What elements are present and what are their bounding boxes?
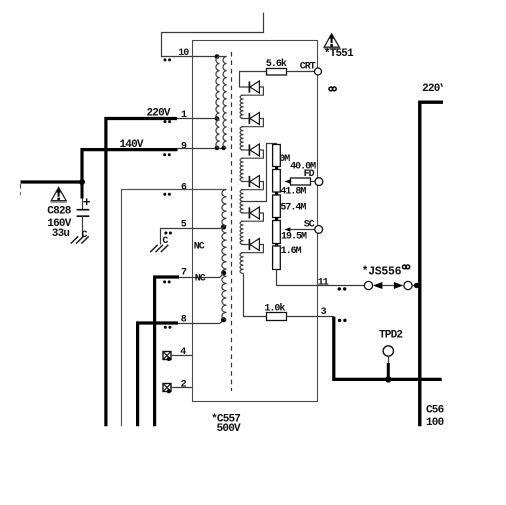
node chain link dot — [275, 217, 278, 220]
wire D6 anode loop — [241, 245, 264, 253]
svg-text:1.6M: 1.6M — [281, 246, 302, 257]
svg-text:C56: C56 — [426, 405, 444, 417]
wire pin 6 (thin bus down) — [122, 190, 227, 427]
wire chain link — [276, 244, 278, 247]
wire top feed to pin 10 — [162, 13, 264, 57]
wire left input to 140V node (thick) — [21, 180, 83, 183]
infinity mark near CRT — [329, 87, 333, 91]
wire D1 anode loop — [241, 87, 264, 95]
node pin1 junction dot — [215, 116, 220, 121]
wire 5.6k to CRT terminal — [287, 71, 315, 73]
pin 11 ** mark — [338, 287, 341, 290]
transformer T551 outline box — [193, 41, 318, 402]
diode D5 of HV stack — [248, 207, 250, 218]
wire D2 anode loop — [241, 119, 264, 127]
HV winding section 6 — [240, 253, 244, 274]
wire pin 7 thin part — [179, 274, 224, 278]
capacitor C828 plus sign — [83, 201, 90, 203]
diode D4 of HV stack — [248, 176, 250, 187]
resistor 1.0k — [267, 313, 287, 321]
HV winding section 1 — [240, 95, 243, 118]
svg-text:41.8M: 41.8M — [280, 186, 306, 197]
pin 2 crossed-box terminal — [163, 384, 171, 392]
node pin7 junction dot — [221, 270, 226, 275]
SC terminal circle — [315, 226, 323, 234]
wire winding to D2 — [241, 118, 249, 120]
svg-text:0M: 0M — [279, 154, 290, 165]
wire pin 5 — [161, 227, 224, 244]
HV winding section 2 — [240, 127, 243, 150]
jumper JS556 left circle — [364, 281, 372, 289]
jumper JS556 double arrow — [380, 285, 396, 287]
svg-text:500V: 500V — [217, 423, 241, 435]
wire winding to D6 — [241, 244, 249, 246]
hot-ground warning triangle near C828 — [51, 187, 66, 200]
svg-text:CRT: CRT — [300, 61, 316, 72]
wire 220V right bus (thick) — [420, 102, 443, 426]
HV winding section 5 — [240, 221, 243, 244]
infinity mark near JS556 — [403, 265, 407, 269]
svg-text:11: 11 — [318, 277, 329, 288]
wire pin 1 — [177, 118, 217, 120]
wire chain bottom to pin 11 — [277, 270, 365, 286]
HV winding section 4 — [240, 190, 243, 213]
pin 7 ** mark — [163, 280, 166, 283]
wire pin 7 (thick bus down) — [155, 277, 179, 426]
wire pin 4 — [171, 355, 193, 357]
warning triangle T551 — [324, 34, 339, 47]
wire winding to D5 — [241, 212, 249, 214]
pin 8 ** mark — [164, 326, 167, 329]
svg-text:*T551: *T551 — [324, 48, 354, 60]
diode D3 of HV stack — [248, 144, 250, 155]
wire pin 8 thin part — [178, 321, 224, 324]
wire 220V feed (thick) — [106, 119, 177, 427]
node TPD2 junction dot — [385, 376, 391, 382]
diode D1 of HV stack — [248, 81, 250, 92]
FD tap arrow — [285, 179, 291, 183]
bleeder resistor 19.5M — [273, 221, 281, 244]
node junction dot on 220V bus — [414, 283, 419, 288]
svg-text:10: 10 — [178, 48, 189, 59]
node chain link dot — [275, 192, 278, 195]
svg-text:33u: 33u — [52, 228, 70, 240]
ground (chassis) at pin 5 — [150, 245, 158, 252]
capacitor C828 plates — [77, 209, 90, 211]
pin 1 ** mark — [164, 120, 167, 123]
node pin10 junction dot — [215, 54, 220, 59]
wire FD resistor to terminal — [311, 181, 316, 183]
TPD2 test point circle — [383, 346, 393, 356]
wire chain link — [276, 218, 278, 221]
continuation tick at left wire end — [20, 184, 22, 189]
pin 3 ** mark — [338, 319, 341, 322]
primary winding L-B (parallel) — [223, 57, 227, 149]
node pin8 junction dot — [221, 317, 226, 322]
wire pin 2 — [171, 387, 193, 389]
jumper JS556 right circle — [404, 281, 412, 289]
wire chain link — [276, 192, 278, 195]
pin 4 crossed-box terminal — [163, 352, 171, 360]
bleeder resistor (0M) — [273, 145, 281, 167]
wire winding to D3 — [241, 149, 249, 151]
primary winding L-A (pins 10-1-9) — [216, 57, 220, 149]
bleeder resistor 57.4M — [273, 195, 281, 218]
wire chain top node — [244, 144, 277, 202]
SC tap arrow and wire — [285, 227, 291, 231]
ground (chassis) below C828 — [71, 236, 79, 243]
wire D4 anode loop — [241, 182, 264, 190]
wire TPD2 stem — [388, 356, 390, 364]
svg-text:SC: SC — [304, 219, 315, 230]
wire C828 bottom lead — [82, 216, 84, 236]
HV winding section 3 — [240, 158, 243, 181]
svg-text:*JS556: *JS556 — [362, 265, 402, 278]
wire D5 anode loop — [241, 213, 264, 221]
pin 10 ** mark — [164, 58, 167, 61]
node chain link dot — [275, 243, 278, 246]
FD terminal circle — [315, 178, 323, 186]
wire D3 anode loop — [241, 150, 264, 158]
pin 6 ** mark — [163, 193, 166, 196]
node pin9 junction dots — [215, 146, 220, 151]
CRT terminal circle — [315, 68, 322, 75]
wire winding to D4 — [241, 181, 249, 183]
resistor 40.0M (FD) — [291, 178, 311, 185]
svg-text:19.5M: 19.5M — [281, 232, 307, 243]
svg-text:220V: 220V — [147, 107, 171, 119]
wire pin 9 — [178, 148, 226, 150]
pin 9 ** mark — [163, 153, 166, 156]
resistor 5.6k — [267, 69, 287, 76]
bleeder resistor 1.6M — [273, 246, 281, 270]
svg-text:140V: 140V — [120, 139, 144, 151]
svg-text:5.6k: 5.6k — [266, 58, 287, 70]
wire chain link — [276, 167, 278, 170]
node junction dot at 140V/C828 — [79, 179, 85, 185]
svg-text:57.4M: 57.4M — [280, 202, 306, 213]
svg-text:C828: C828 — [47, 205, 71, 217]
diode D2 of HV stack — [248, 113, 250, 124]
diode D6 of HV stack — [248, 239, 250, 250]
bleeder resistor 41.8M — [273, 170, 281, 193]
aux winding (pins 6-5-7-8) — [222, 190, 227, 320]
svg-text:NC: NC — [195, 274, 206, 285]
wire 140V feed (thick) — [82, 150, 178, 182]
node pin5 junction dot — [221, 224, 226, 229]
wire HV winding bottom to 1.0k — [244, 274, 267, 317]
node chain link dot — [275, 166, 278, 169]
svg-text:NC: NC — [194, 242, 205, 253]
wire JS556 to 220V bus — [412, 285, 419, 287]
partial V of 220V label — [441, 83, 442, 87]
core dashed line — [231, 52, 233, 391]
svg-text:100: 100 — [426, 417, 444, 429]
wire C828 top lead — [81, 182, 84, 199]
wire CRT output top — [240, 72, 267, 88]
svg-text:TPD2: TPD2 — [379, 330, 402, 342]
wire pin 3 down to TPD2 rail (thick) — [334, 317, 442, 380]
wire 1.0k to pin 3 bend — [287, 316, 334, 318]
svg-text:220: 220 — [422, 83, 440, 95]
wire pin 8 (thick bus down) — [138, 323, 178, 426]
